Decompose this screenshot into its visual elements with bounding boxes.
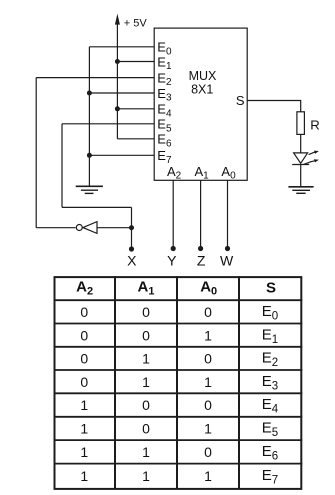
svg-text:E1: E1 xyxy=(262,326,278,346)
svg-text:1: 1 xyxy=(80,397,88,413)
LED light arrow 2 xyxy=(304,159,319,164)
wire X vertical xyxy=(131,207,133,249)
wire A0 pin xyxy=(227,180,229,249)
wire E6 xyxy=(117,138,154,140)
wire +5V vertical bus xyxy=(116,17,118,139)
svg-text:1: 1 xyxy=(142,444,150,460)
svg-text:1: 1 xyxy=(80,420,88,436)
svg-text:A1: A1 xyxy=(138,278,155,297)
svg-text:1: 1 xyxy=(204,374,212,390)
svg-text:S: S xyxy=(266,279,276,296)
ground symbol left xyxy=(76,186,103,193)
svg-text:E2: E2 xyxy=(262,350,278,370)
wire E5 xyxy=(62,123,154,125)
wire X to E5 vertical xyxy=(61,124,63,208)
terminal dot W xyxy=(225,246,230,251)
power +5V arrow xyxy=(115,14,120,25)
svg-text:S: S xyxy=(236,93,245,108)
wire inverter output horizontal xyxy=(36,227,75,229)
wire S output xyxy=(247,101,301,112)
junction dot E7 xyxy=(87,153,92,158)
junction dot E4 xyxy=(115,106,120,111)
wire E0 xyxy=(89,46,154,48)
svg-text:Z: Z xyxy=(197,253,206,269)
svg-text:8X1: 8X1 xyxy=(191,82,213,96)
svg-text:E6: E6 xyxy=(262,443,278,463)
wire E4 xyxy=(117,108,154,110)
wire LED to ground xyxy=(300,165,302,187)
svg-text:Y: Y xyxy=(167,253,177,269)
svg-text:W: W xyxy=(220,253,234,269)
svg-text:1: 1 xyxy=(142,351,150,367)
svg-text:E3: E3 xyxy=(262,373,278,393)
svg-text:R: R xyxy=(310,117,320,132)
svg-text:E4: E4 xyxy=(262,396,279,416)
svg-text:+ 5V: + 5V xyxy=(124,17,148,29)
svg-text:E5: E5 xyxy=(262,419,278,439)
svg-text:E0: E0 xyxy=(262,303,278,323)
MUX U1 box xyxy=(154,28,247,180)
svg-text:0: 0 xyxy=(80,374,88,390)
junction dot E1 xyxy=(115,59,120,64)
svg-text:A2: A2 xyxy=(76,278,93,297)
wire X' vertical (E2 to inverter output) xyxy=(35,78,37,228)
ground symbol right xyxy=(288,187,313,194)
svg-text:0: 0 xyxy=(204,304,212,320)
svg-text:1: 1 xyxy=(204,420,212,436)
svg-text:0: 0 xyxy=(80,351,88,367)
wire A2 pin xyxy=(172,180,174,249)
svg-text:1: 1 xyxy=(80,444,88,460)
wire inverter input xyxy=(97,227,132,229)
wire X horizontal xyxy=(62,206,132,208)
wire E2 xyxy=(36,77,154,79)
wire resistor to LED xyxy=(300,134,302,153)
terminal dot X xyxy=(129,246,134,251)
svg-text:1: 1 xyxy=(204,327,212,343)
svg-text:A0: A0 xyxy=(200,278,217,297)
svg-text:0: 0 xyxy=(142,420,150,436)
svg-text:1: 1 xyxy=(80,468,88,484)
svg-text:0: 0 xyxy=(80,304,88,320)
terminal dot Z xyxy=(198,246,203,251)
wire E3 xyxy=(89,92,154,94)
LED light arrow 1 xyxy=(309,151,319,155)
svg-text:X: X xyxy=(127,253,137,269)
inverter NOT gate xyxy=(76,222,97,234)
wire ground bus vertical xyxy=(88,47,90,186)
wire E1 xyxy=(117,61,154,63)
svg-text:0: 0 xyxy=(204,397,212,413)
LED D1 xyxy=(292,153,309,165)
svg-text:0: 0 xyxy=(204,351,212,367)
svg-text:0: 0 xyxy=(142,327,150,343)
junction dot inverter input xyxy=(129,225,134,230)
truth table xyxy=(54,276,303,489)
wire A1 pin xyxy=(200,180,202,249)
svg-text:0: 0 xyxy=(204,444,212,460)
wire E7 xyxy=(89,154,154,156)
svg-text:MUX: MUX xyxy=(189,69,217,83)
terminal dot Y xyxy=(171,246,176,251)
svg-text:E7: E7 xyxy=(262,467,278,487)
svg-text:1: 1 xyxy=(142,468,150,484)
svg-text:1: 1 xyxy=(204,468,212,484)
svg-text:0: 0 xyxy=(142,397,150,413)
svg-text:0: 0 xyxy=(142,304,150,320)
svg-text:0: 0 xyxy=(80,327,88,343)
svg-text:1: 1 xyxy=(142,374,150,390)
resistor R xyxy=(297,112,305,135)
junction dot E3 xyxy=(87,91,92,96)
